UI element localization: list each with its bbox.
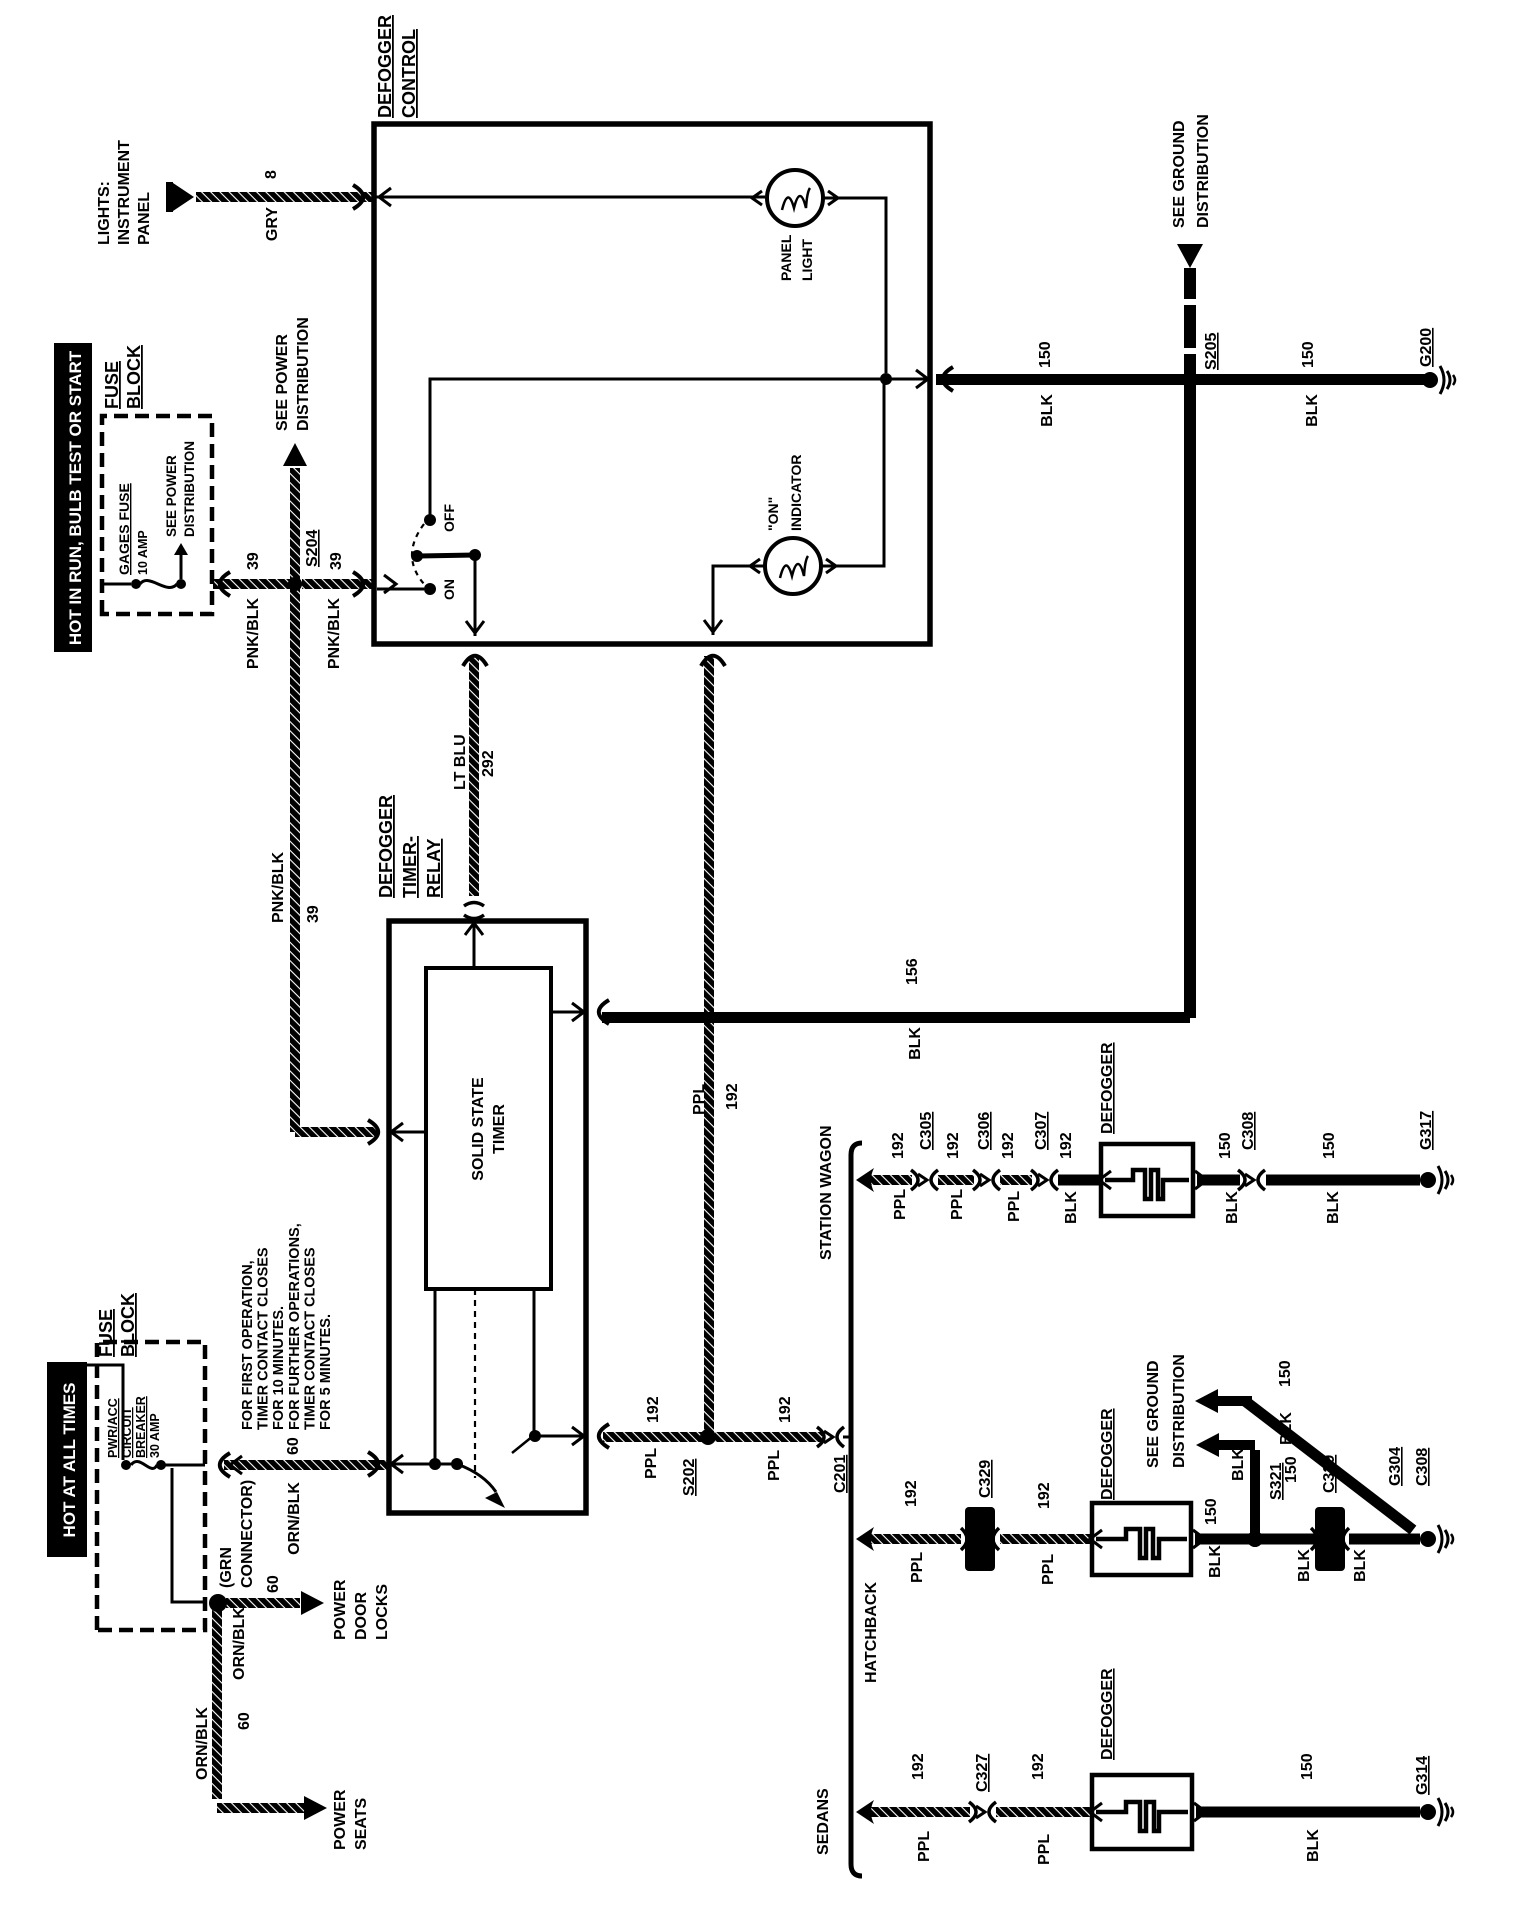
svg-text:150: 150 [1321,1132,1338,1159]
svg-text:BLK: BLK [1304,394,1321,427]
svg-text:STATION WAGON: STATION WAGON [818,1125,835,1260]
svg-text:C305: C305 [918,1112,935,1150]
svg-text:POWER: POWER [332,1579,349,1640]
svg-text:150: 150 [1283,1456,1300,1483]
defogger element (hatchback) [1092,1503,1191,1575]
svg-text:BLOCK: BLOCK [124,345,144,409]
BLK 156 exit [551,1011,586,1014]
LT BLU entry [473,921,476,968]
wire S204 left arm (PNK/BLK 39) to timer relay [290,584,300,1132]
wire BLK 150 to C308 [1197,1175,1240,1186]
svg-text:LT BLU: LT BLU [452,734,469,790]
svg-text:DEFOGGER: DEFOGGER [1099,1408,1116,1500]
svg-text:39: 39 [328,552,345,570]
svg-text:DISTRIBUTION: DISTRIBUTION [182,441,197,537]
S321 ground distribution stub [1250,1450,1260,1539]
svg-text:PPL: PPL [909,1552,926,1583]
svg-text:TIMER CONTACT CLOSES: TIMER CONTACT CLOSES [302,1247,318,1430]
svg-text:BLK: BLK [1278,1412,1295,1445]
svg-text:192: 192 [903,1480,920,1507]
svg-text:LIGHT: LIGHT [799,239,815,281]
ON indicator bulb [765,538,821,594]
svg-text:PWR/ACC: PWR/ACC [106,1398,120,1458]
wire BLK to G304/C308 [1349,1534,1420,1545]
fuse block dashed box [102,416,212,614]
svg-text:SOLID STATE: SOLID STATE [470,1077,487,1181]
wire breaker to timer relay [164,1464,205,1467]
ground G314 [1420,1804,1436,1820]
svg-text:150: 150 [1300,341,1317,368]
wire BLK 192 to defogger [1058,1175,1101,1186]
wire ORN/BLK 60 to power door locks [226,1598,300,1608]
svg-text:PANEL: PANEL [136,192,153,245]
svg-text:150: 150 [1217,1132,1234,1159]
svg-text:OFF: OFF [441,504,457,532]
svg-text:DEFOGGER: DEFOGGER [375,15,395,118]
svg-text:DEFOGGER: DEFOGGER [376,795,396,898]
wire BLK 150 S321 to C329 [1255,1534,1315,1545]
wire BLK 150 to S321 [1195,1534,1255,1545]
defogger element (station wagon) [1101,1144,1193,1216]
bus stub [72,1365,123,1460]
relay contact to PPL exit [529,1430,541,1442]
wire BLK 150 to G314 [1196,1807,1420,1818]
svg-text:BLK: BLK [1224,1191,1241,1224]
svg-text:192: 192 [1030,1753,1047,1780]
svg-text:BLK: BLK [1305,1829,1322,1862]
see ground distribution dashed stub + arrow [1184,354,1196,374]
wire BLK 150 control to S205 [936,374,1190,385]
svg-text:292: 292 [480,750,497,777]
svg-text:SEDANS: SEDANS [815,1788,832,1855]
connector C329 (inline) [965,1507,995,1571]
svg-text:LIGHTS:: LIGHTS: [96,181,113,245]
svg-text:PPL: PPL [892,1189,909,1220]
svg-text:PPL: PPL [916,1831,933,1862]
svg-text:C329: C329 [977,1460,994,1498]
svg-text:ON: ON [441,579,457,600]
PWR/ACC circuit breaker [121,1460,131,1470]
svg-text:HOT IN RUN, BULB TEST OR STAR: HOT IN RUN, BULB TEST OR START [66,350,85,645]
svg-text:ORN/BLK: ORN/BLK [231,1607,248,1680]
svg-text:POWER: POWER [332,1789,349,1850]
svg-text:BLOCK: BLOCK [118,1293,138,1357]
svg-text:192: 192 [777,1396,794,1423]
svg-text:HATCHBACK: HATCHBACK [863,1582,880,1683]
body style brace [851,1143,862,1876]
svg-text:TIMER CONTACT CLOSES: TIMER CONTACT CLOSES [256,1247,272,1430]
svg-text:SEE GROUND: SEE GROUND [1171,120,1188,228]
wire S204 right arm to SEE POWER DISTRIBUTION arrow [290,468,300,584]
svg-text:192: 192 [1058,1132,1075,1159]
svg-text:C306: C306 [976,1112,993,1150]
wire ORN/BLK 60 to power seats [212,1607,222,1799]
svg-text:192: 192 [910,1753,927,1780]
junction dot lamp rail [880,373,892,385]
svg-text:DOOR: DOOR [353,1592,370,1640]
svg-text:DISTRIBUTION: DISTRIBUTION [295,317,312,431]
svg-text:8: 8 [263,170,280,179]
breaker fuse block dashed box [97,1342,205,1630]
svg-text:LOCKS: LOCKS [374,1584,391,1640]
wire PPL 192 timer to S202 [603,1432,708,1442]
svg-text:PPL: PPL [1040,1554,1057,1585]
label: HOT AT ALL TIMES banner [47,1362,87,1557]
svg-text:SEE POWER: SEE POWER [274,334,291,431]
svg-text:192: 192 [645,1396,662,1423]
svg-text:GRY: GRY [264,207,281,241]
svg-text:INDICATOR: INDICATOR [788,455,804,531]
svg-text:150: 150 [1203,1498,1220,1525]
svg-text:FOR 10 MINUTES.: FOR 10 MINUTES. [271,1306,287,1430]
svg-text:DEFOGGER: DEFOGGER [1099,1042,1116,1134]
svg-text:PPL: PPL [1006,1191,1023,1222]
svg-text:G314: G314 [1414,1756,1431,1795]
timer dashed actuate link [474,1289,476,1478]
svg-text:156: 156 [904,958,921,985]
svg-text:FOR FURTHER OPERATIONS,: FOR FURTHER OPERATIONS, [287,1223,303,1430]
svg-text:C201: C201 [832,1455,849,1493]
svg-text:30 AMP: 30 AMP [148,1413,162,1458]
svg-text:DISTRIBUTION: DISTRIBUTION [1195,114,1212,228]
wire PPL 192 control to S202 [704,656,714,1433]
svg-text:G200: G200 [1418,328,1435,367]
svg-text:CIRCUIT: CIRCUIT [120,1407,134,1458]
ground bus to S205 [1184,383,1196,1018]
ground G317 [1420,1172,1436,1188]
wire PNK/BLK 39 fuse to S204 [220,572,230,596]
connector C306 [973,1170,980,1190]
connector C327 [969,1802,976,1822]
svg-text:10 AMP: 10 AMP [136,530,150,575]
svg-text:BREAKER: BREAKER [134,1396,148,1458]
svg-text:C307: C307 [1033,1112,1050,1150]
second ground distribution stub + diagonal to G304 [1195,1389,1218,1413]
splice S202 [701,1430,715,1444]
svg-text:192: 192 [945,1132,962,1159]
BLK output exit arrow [916,370,928,388]
wire LT BLU 292 [469,656,479,896]
svg-text:GAGES FUSE: GAGES FUSE [116,483,132,575]
tap to GRN connector [172,1468,207,1602]
svg-text:(GRN: (GRN [218,1547,235,1588]
svg-text:PNK/BLK: PNK/BLK [245,598,262,670]
see power distribution stub arrow [180,554,183,579]
svg-text:BLK: BLK [1352,1549,1369,1582]
svg-text:SEE GROUND: SEE GROUND [1145,1360,1162,1468]
splice S205 [1182,372,1198,388]
svg-text:INSTRUMENT: INSTRUMENT [116,140,133,245]
connector C305 [911,1170,918,1190]
svg-text:PPL: PPL [1036,1834,1053,1865]
panel light bulb [374,196,765,199]
svg-text:192: 192 [890,1132,907,1159]
svg-text:C329: C329 [1321,1455,1338,1493]
svg-text:ORN/BLK: ORN/BLK [286,1482,303,1555]
connector C308 [1238,1170,1245,1190]
svg-text:192: 192 [1000,1132,1017,1159]
svg-text:60: 60 [265,1575,282,1593]
ground G200 [1422,372,1438,388]
component box: DEFOGGER TIMER-RELAY [389,921,586,1513]
svg-text:BLK: BLK [1039,394,1056,427]
svg-text:CONTROL: CONTROL [399,29,419,118]
svg-text:DISTRIBUTION: DISTRIBUTION [1171,1354,1188,1468]
connector C329 (second) [1315,1507,1345,1571]
svg-text:G317: G317 [1418,1111,1435,1150]
splice S321 [1247,1531,1263,1547]
connector C307 [1031,1170,1038,1190]
svg-text:FUSE: FUSE [102,361,122,409]
svg-text:FOR FIRST OPERATION,: FOR FIRST OPERATION, [240,1260,256,1430]
wire PPL 192 S202 to C201 [715,1432,822,1442]
connector at GRY entry [353,185,363,209]
svg-text:150: 150 [1299,1753,1316,1780]
svg-text:C327: C327 [974,1754,991,1792]
relay wiper [457,1464,496,1492]
station wagon branch start [856,1168,874,1192]
svg-text:PNK/BLK: PNK/BLK [270,851,287,923]
svg-text:192: 192 [1036,1482,1053,1509]
svg-text:C308: C308 [1414,1448,1431,1486]
splice S204 [288,577,302,591]
wire switch to LT BLU exit [474,555,477,636]
svg-text:BLK: BLK [1230,1448,1247,1481]
svg-text:BLK: BLK [1325,1191,1342,1224]
PNK/BLK entry to timer [391,1131,426,1134]
connector C201 [817,1427,824,1447]
svg-text:150: 150 [1037,341,1054,368]
svg-text:PPL: PPL [766,1450,783,1481]
svg-text:FOR 5 MINUTES.: FOR 5 MINUTES. [318,1314,334,1430]
connector at PNK/BLK entry [353,572,363,596]
component box: DEFOGGER CONTROL [374,124,930,644]
wire BLK 150 to G317 [1266,1175,1420,1186]
svg-text:BLK: BLK [1296,1549,1313,1582]
svg-text:39: 39 [245,552,262,570]
svg-text:G304: G304 [1387,1447,1404,1486]
svg-text:BLK: BLK [1063,1191,1080,1224]
sedans branch start [856,1800,874,1824]
wire BLK 156 [602,1012,1190,1023]
svg-text:39: 39 [305,905,322,923]
svg-text:DEFOGGER: DEFOGGER [1099,1668,1116,1760]
svg-text:PPL: PPL [949,1189,966,1220]
svg-text:60: 60 [236,1712,253,1730]
svg-text:TIMER: TIMER [491,1104,508,1154]
svg-text:PNK/BLK: PNK/BLK [326,598,343,670]
defogger element (sedans) [1092,1775,1192,1849]
svg-text:S202: S202 [681,1459,698,1496]
splice dots restamp [288,577,302,591]
svg-text:150: 150 [1277,1360,1294,1387]
ground G304 / C308 [1420,1531,1436,1547]
svg-text:60: 60 [285,1437,302,1455]
svg-text:TIMER-: TIMER- [400,836,420,898]
svg-text:SEATS: SEATS [353,1798,370,1850]
label: HOT IN RUN, BULB TEST OR START banner [54,343,92,652]
gages fuse F1 [104,583,131,586]
svg-text:PPL: PPL [691,1084,708,1115]
svg-text:S205: S205 [1203,333,1220,370]
hatchback branch start [856,1527,874,1551]
svg-text:SEE POWER: SEE POWER [164,455,179,537]
wire GRY 8 [196,192,372,202]
svg-text:C308: C308 [1240,1112,1257,1150]
svg-text:PPL: PPL [643,1448,660,1479]
svg-text:S204: S204 [304,530,321,567]
svg-text:RELAY: RELAY [424,839,444,898]
svg-text:HOT AT ALL TIMES: HOT AT ALL TIMES [60,1383,79,1538]
off-page arrow to LIGHTS: INSTRUMENT PANEL [166,182,173,212]
ORN/BLK entry + relay contact [391,1463,457,1466]
svg-text:"ON": "ON" [765,497,781,531]
svg-text:CONNECTOR): CONNECTOR) [239,1480,256,1588]
GRN connector [209,1594,227,1612]
svg-text:PANEL: PANEL [778,234,794,281]
svg-text:192: 192 [724,1083,741,1110]
wire PNK/BLK 39 S204 to defogger control [302,579,374,589]
svg-text:BLK: BLK [907,1027,924,1060]
defogger switch [377,588,424,591]
svg-text:ORN/BLK: ORN/BLK [194,1707,211,1780]
solid state timer inner box [426,968,551,1289]
svg-text:BLK: BLK [1207,1545,1224,1578]
wire OFF contact to output rail [430,379,926,520]
wire BLK 150 S205 to G200 [1190,374,1426,385]
